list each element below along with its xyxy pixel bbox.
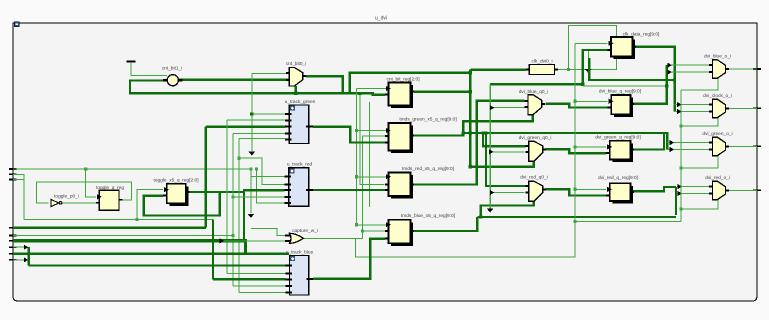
bus pin3 — [13, 241, 246, 254]
left pin B wire — [13, 174, 24, 219]
mux dvi_blue_q0_i — [528, 95, 542, 115]
buffer clk_dvi0_i — [529, 65, 554, 75]
wire to u_track_green pin4 — [233, 133, 285, 135]
wire clk to cnt_bit_reg — [357, 88, 386, 90]
junction clock lower — [135, 218, 138, 221]
svg-text:cnt_bit0_i: cnt_bit0_i — [286, 61, 307, 67]
junction clk red — [355, 175, 358, 178]
wire toggle clock — [86, 169, 96, 197]
wire to u_track_green clk pin — [252, 113, 285, 115]
svg-text:u_track_red: u_track_red — [287, 162, 313, 168]
junction D drop — [581, 83, 584, 86]
net left pin A — [13, 168, 252, 170]
wire to u_track_green pin5 — [239, 138, 285, 140]
input pin P4 — [9, 227, 17, 229]
pin4 wire — [13, 246, 25, 248]
wire to u_track_green pin2 — [227, 119, 285, 121]
wire clk_dvi0 out — [558, 69, 569, 71]
clock branch x5 — [137, 190, 163, 220]
arrow green_o in2 — [670, 147, 674, 152]
arrow red in2 — [490, 190, 494, 195]
junction red pin5 — [255, 167, 258, 170]
wire blue_o select — [681, 78, 718, 90]
wire dvi_green_q0 in2 — [490, 151, 525, 153]
input pin P9 — [9, 259, 17, 261]
junction clk loop — [567, 68, 570, 71]
junction clock sel — [679, 124, 682, 127]
wire to dvi_red_q0 in1 — [486, 133, 526, 186]
input pin P5 — [9, 235, 17, 237]
wire dvi_green_q clock — [575, 146, 606, 148]
wire to u_track_red pin4 — [233, 196, 285, 198]
wire dvi_red_q clock — [575, 188, 606, 190]
vertical red bus — [675, 187, 677, 215]
clock drop to u_track_red — [250, 169, 252, 213]
wire supply to net — [130, 62, 132, 76]
arrow clock_o in2 — [677, 109, 681, 114]
junction green select — [469, 165, 472, 168]
output pin dvi_clock_o — [753, 107, 761, 109]
wire tmds_blue Q — [414, 217, 477, 231]
junction sel red — [573, 188, 576, 191]
wire dvi_red_o net — [725, 189, 757, 191]
wire dvi_clock_o net — [725, 107, 757, 109]
wire green_o in2 — [667, 149, 709, 151]
svg-text:cnt_bit_reg[2:0]: cnt_bit_reg[2:0] — [386, 76, 419, 82]
vertical bus x243.9 — [243, 190, 245, 241]
svg-text:dvi_blue_q_reg[9:0]: dvi_blue_q_reg[9:0] — [599, 89, 641, 95]
wire green_o in1 — [667, 142, 709, 144]
svg-text:dvi_green_q0_i: dvi_green_q0_i — [519, 135, 552, 141]
junction x674.6 — [673, 78, 676, 81]
clock drop to u_track_green — [251, 73, 253, 151]
wire dvi_blue_o net — [725, 68, 757, 70]
svg-text:clk_dvi0_i: clk_dvi0_i — [531, 58, 552, 64]
wire to dvi_green_q0 in1 — [483, 133, 526, 146]
svg-text:dvi_clock_o_i: dvi_clock_o_i — [703, 93, 732, 99]
wire clk_data D drop — [583, 50, 608, 84]
wire bottom bus to red_o — [477, 216, 676, 218]
register clk_data_reg — [614, 40, 636, 60]
wire clk to tmds_blue_reg — [357, 224, 386, 226]
register dvi_green_q_reg — [612, 144, 633, 163]
clock net vertical — [356, 89, 358, 225]
vertical x490.1 — [489, 84, 491, 209]
wire u_track_blue out — [313, 239, 385, 279]
vertical join pins 4/6 — [28, 247, 30, 265]
wire dvi_green_o net — [725, 145, 757, 147]
wire tmds_red Q — [414, 101, 524, 185]
arrow red_o in1 — [678, 184, 682, 189]
svg-text:u_track_green: u_track_green — [285, 99, 316, 105]
junction red select — [479, 215, 482, 218]
junction cnt_bit0 select — [294, 92, 297, 95]
svg-text:u_dvi: u_dvi — [375, 16, 387, 22]
svg-text:tmds_blue_x5_q_reg[9:0]: tmds_blue_x5_q_reg[9:0] — [401, 213, 455, 219]
register dvi_blue_q_reg — [614, 98, 633, 117]
junction u_track_green clk — [250, 113, 253, 116]
wire cnt_bit1 left loop — [130, 81, 343, 94]
register dvi_red_q_reg — [612, 186, 633, 204]
net vertical v359 — [360, 93, 385, 184]
arrow green in2 — [489, 149, 493, 154]
arrow capture in2 — [220, 238, 224, 243]
junction blue select — [462, 131, 465, 134]
junction x239 mid — [237, 157, 240, 160]
wire cnt_bit_reg Q — [414, 91, 470, 93]
arrow red_o in2 — [678, 191, 682, 196]
register tmds_red_x5_q_reg — [391, 175, 413, 199]
svg-text:dvi_red_q0_i: dvi_red_q0_i — [520, 175, 547, 181]
mux dvi_clock_o_i — [712, 99, 725, 117]
input pin P2 — [9, 173, 17, 175]
junction sel blue — [573, 100, 576, 103]
junction x470.3 top — [469, 71, 472, 74]
bus vertical x213 — [212, 219, 214, 279]
bus to u_track_blue D — [213, 278, 285, 280]
dangling arrow 1 — [248, 151, 255, 155]
pin6 wire — [13, 259, 25, 261]
net vertical x239 — [238, 139, 240, 293]
junction pin2 — [231, 234, 234, 237]
wire to u_track_red clk pin — [251, 176, 285, 178]
wire supply stub — [131, 75, 167, 77]
svg-text:tmds_red_x5_q_reg[9:0]: tmds_red_x5_q_reg[9:0] — [402, 166, 454, 172]
junction x470.3 green — [469, 131, 472, 134]
wire tmds_green Q — [414, 133, 667, 150]
junction green in1 branch — [481, 131, 484, 134]
wire red mux select — [481, 201, 534, 217]
wire dvi_blue_q clock — [575, 100, 608, 102]
wire cnt_bit0 select — [295, 86, 297, 93]
input pin P3 — [9, 179, 17, 181]
wire to u_track_red pin2 — [239, 158, 285, 185]
svg-text:dvi_blue_o_i: dvi_blue_o_i — [704, 54, 731, 60]
wire capture select tap — [356, 221, 576, 257]
svg-text:cnt_bit1_i: cnt_bit1_i — [162, 65, 183, 71]
bus to u_track_blue clk — [29, 264, 286, 266]
wire blue_o in2 — [667, 71, 709, 73]
bus from pin3 jog — [246, 253, 290, 255]
wire blue q0 out — [545, 104, 607, 108]
wire inverter to toggle D — [63, 202, 96, 204]
wire to u_track_blue pin5 — [239, 291, 285, 293]
dangling arrow x490 — [487, 208, 494, 212]
mux dvi_green_q0_i — [529, 141, 543, 161]
arrow blue_o in1 — [667, 63, 671, 68]
junction net A — [84, 167, 87, 170]
wire y86 net — [583, 85, 667, 87]
supply symbol T — [127, 61, 136, 63]
block u_track_blue — [290, 256, 309, 296]
register cnt_bit_reg — [391, 85, 413, 108]
bus vertical x205.8 — [205, 127, 207, 228]
wire feedback top — [350, 73, 471, 94]
wire red q0 out — [546, 189, 606, 195]
wire u_track_green out — [313, 127, 385, 143]
junction x666.8 — [665, 84, 668, 87]
toggle_x5 D loop — [144, 192, 220, 216]
select vertical right — [680, 90, 682, 222]
or-gate capture_w_i — [285, 235, 291, 237]
vertical bus x470.3 — [469, 70, 471, 167]
output pin dvi_green_o — [753, 145, 761, 147]
toggle_x5 out to track red D — [220, 190, 285, 192]
wire red_o in1 — [677, 186, 709, 188]
wire dvi_red_q0 in2 — [490, 192, 524, 194]
wire blue_o in1 — [667, 64, 709, 66]
wire clk to tmds_red_reg — [357, 176, 386, 178]
register toggle_x5_q_reg — [169, 187, 188, 207]
mux dvi_red_o_i — [712, 181, 725, 199]
arrow pin6 — [24, 257, 28, 262]
wire clock_o select — [681, 118, 718, 126]
wire capture in1 — [251, 229, 288, 236]
svg-text:toggle_p0_i: toggle_p0_i — [54, 194, 79, 200]
wire select branch right — [575, 220, 681, 222]
wire green_o select — [681, 156, 718, 168]
svg-text:dvi_red_o_i: dvi_red_o_i — [705, 175, 730, 181]
junction select right — [679, 208, 682, 211]
wire to cnt_bit_reg D — [343, 93, 385, 94]
junction red pin4 — [231, 195, 234, 198]
net vertical v369 — [369, 102, 371, 207]
wire green mux select — [470, 162, 533, 167]
wire y80 bus — [589, 58, 675, 80]
wire dvi_blue_q0 in2 — [490, 107, 524, 109]
mux dvi_blue_o_i — [712, 60, 725, 78]
select net vertical — [574, 43, 576, 257]
mux cnt_bit0_i — [289, 68, 303, 87]
svg-text:toggle_x5_q_reg[2:0]: toggle_x5_q_reg[2:0] — [153, 178, 198, 184]
wire clk to tmds_green_reg — [357, 130, 386, 132]
wire red_o select — [681, 200, 718, 210]
wire to u_track_blue pin4 — [233, 285, 285, 287]
net vertical x227.1 — [226, 120, 228, 273]
bus pin5 row — [13, 253, 289, 255]
input pin P6 — [9, 240, 17, 242]
toggle feedback loop — [37, 182, 132, 203]
dangling arrow clk — [587, 50, 589, 70]
output pin dvi_blue_o — [753, 68, 761, 70]
junction sel green — [573, 145, 576, 148]
block u_track_green — [289, 105, 308, 144]
wire cnt_bit0 out — [306, 76, 343, 93]
register toggle_q_reg — [99, 190, 119, 210]
register tmds_blue_x5_q_reg — [391, 222, 413, 246]
net pin2 — [13, 235, 233, 237]
wire capture in2 — [222, 240, 288, 242]
wire capture out — [304, 237, 363, 239]
svg-text:capture_w_i: capture_w_i — [292, 228, 318, 234]
junction red in1 branch — [484, 131, 487, 134]
wire clk_data clock — [575, 42, 608, 44]
wire blue q reg Q — [633, 65, 667, 104]
wire red_o in2 — [677, 193, 709, 195]
junction sel branch — [573, 220, 576, 223]
wire mux top input net — [252, 72, 289, 74]
junction feedback bottom — [469, 90, 472, 93]
svg-text:toggle_q_reg: toggle_q_reg — [96, 185, 124, 191]
net to u_track_red pin5 — [257, 169, 285, 203]
bus to u_track_green D — [206, 126, 285, 128]
inverter cnt_bit1_i (circle) — [163, 79, 167, 81]
block u_track_red — [289, 168, 309, 206]
junction clk blue — [355, 223, 358, 226]
svg-text:u_track_blue: u_track_blue — [286, 249, 314, 255]
wire clk_data Q — [635, 47, 675, 112]
output pin dvi_red_o — [753, 189, 761, 191]
arrow blue in2 — [490, 105, 494, 110]
svg-text:clk_data_reg[9:0]: clk_data_reg[9:0] — [623, 31, 660, 37]
input pin P8 — [9, 253, 17, 255]
junction blue pin2 — [361, 229, 364, 232]
svg-text:dvi_green_q_reg[9:0]: dvi_green_q_reg[9:0] — [595, 135, 640, 141]
clk loop rectangle — [569, 26, 617, 70]
wire red q reg Q — [633, 187, 676, 191]
wire to clk_dvi0 in — [470, 68, 526, 70]
svg-text:dvi_green_o_i: dvi_green_o_i — [702, 131, 732, 137]
junction v359 top — [358, 92, 361, 95]
wire green q0 out — [546, 149, 606, 153]
net vertical v362 (green/blue pin2) — [363, 136, 386, 238]
wire u_track_red out — [313, 189, 385, 191]
register tmds_green_x5_q_reg — [391, 126, 413, 154]
wire clock_o in1 — [675, 104, 709, 106]
arrow blue_o in2 — [667, 70, 671, 75]
dangling arrow 2 — [248, 214, 255, 218]
clock net lower — [24, 218, 213, 220]
svg-text:dvi_blue_q0_i: dvi_blue_q0_i — [519, 89, 549, 95]
wire blue reg pin2 — [363, 230, 387, 232]
wire dvi_blue_q0 select — [463, 115, 533, 133]
arrow green_o in1 — [670, 140, 674, 145]
sheet corner icon — [14, 22, 19, 27]
junction clock drop red — [249, 167, 252, 170]
input pin P7 — [9, 246, 17, 248]
left pin C wire — [13, 179, 24, 181]
wire cnt_bit1 out — [179, 79, 289, 81]
wire y84.3 bus — [490, 83, 583, 85]
net vertical x232.9 — [232, 134, 234, 286]
svg-text:dvi_red_q_reg[9:0]: dvi_red_q_reg[9:0] — [598, 175, 638, 181]
mux dvi_green_o_i — [712, 137, 725, 155]
wire green q reg Q — [633, 132, 664, 150]
wire clock_o in2 — [675, 111, 709, 113]
bus pin1 — [13, 227, 206, 229]
svg-text:tmds_green_x5_q_reg[9:0]: tmds_green_x5_q_reg[9:0] — [399, 116, 456, 122]
input pin P1 — [9, 168, 17, 170]
wire to u_track_blue pin2 — [227, 273, 285, 275]
mux dvi_red_q0_i — [529, 181, 543, 201]
arrow pin4 — [24, 245, 28, 250]
junction clk green — [355, 129, 358, 132]
junction green sel — [679, 166, 682, 169]
inverter toggle_p0_i — [51, 200, 59, 207]
arrow clock_o in1 — [677, 102, 681, 107]
